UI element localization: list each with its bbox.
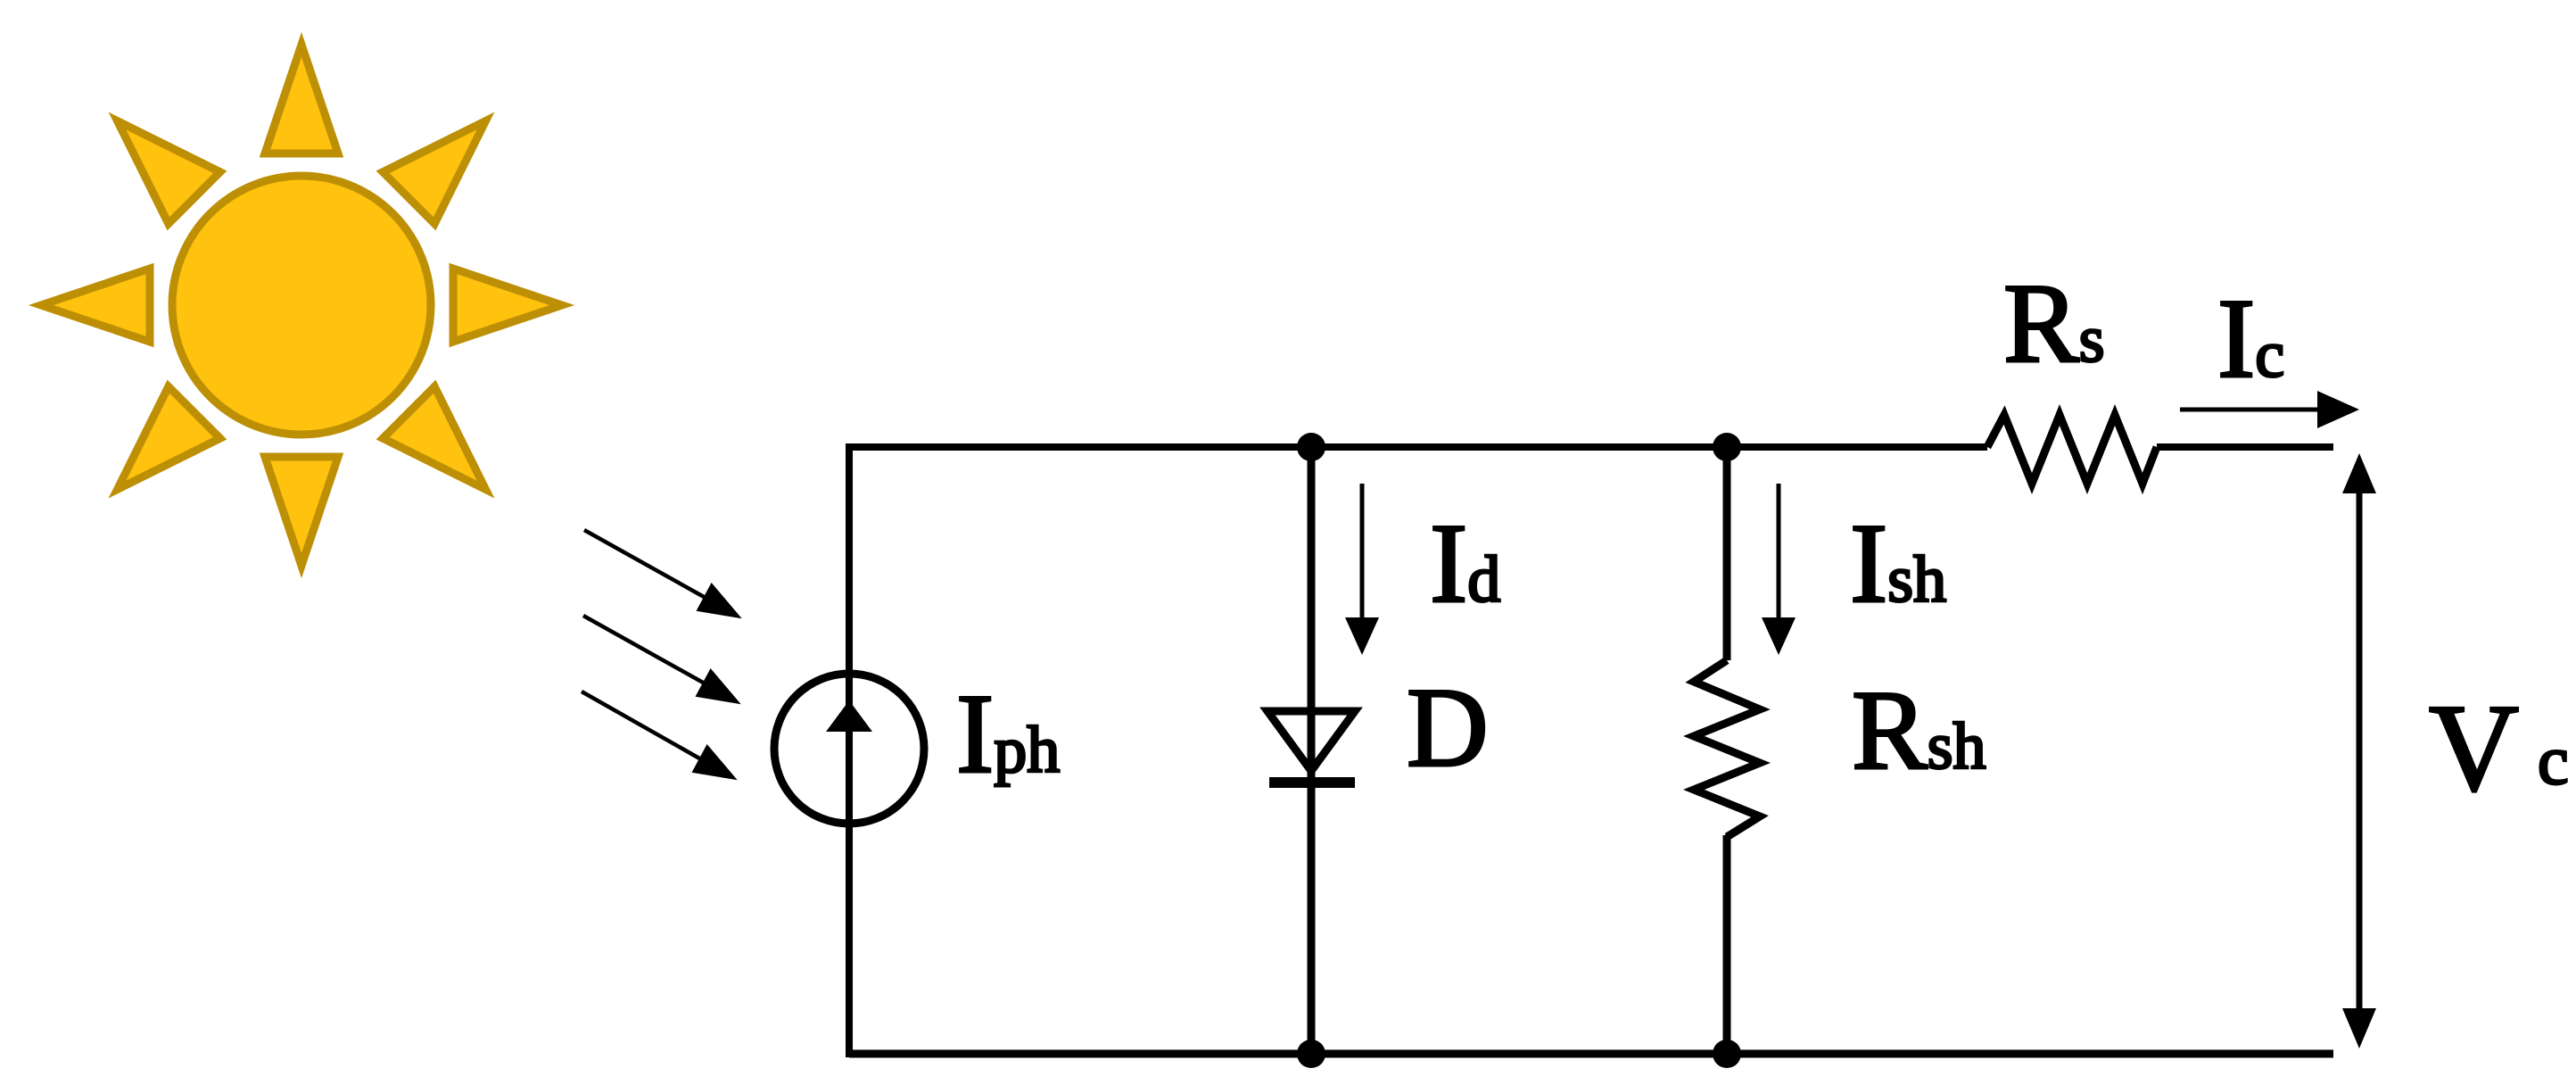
arrow Vc double-headed xyxy=(2342,453,2376,1048)
wire: shunt branch lower xyxy=(1723,835,1731,1054)
irradiance arrow 1 xyxy=(584,530,737,616)
wire: diode branch xyxy=(1308,447,1316,1054)
wire: shunt branch upper xyxy=(1723,447,1731,660)
arrow Ish xyxy=(1762,484,1796,655)
diode D triangle xyxy=(1267,711,1355,771)
irradiance arrow 2 xyxy=(583,616,736,701)
current source arrowhead xyxy=(826,700,872,732)
node D2 (bottom shunt junction) xyxy=(1713,1039,1741,1068)
arrow Ic xyxy=(2180,391,2359,428)
node A (top diode junction) xyxy=(1297,433,1325,461)
current source Iph circle xyxy=(774,674,924,824)
arrow Id xyxy=(1345,484,1379,655)
irradiance arrow 3 xyxy=(582,692,732,777)
sun xyxy=(41,45,562,566)
node C (bottom diode junction) xyxy=(1297,1039,1325,1068)
svg-text:D: D xyxy=(1407,666,1489,791)
wire: top right segment after Rs xyxy=(2157,443,2333,451)
resistor Rs zigzag xyxy=(1987,415,2157,484)
resistor Rsh zigzag xyxy=(1694,660,1760,837)
svg-text:V: V xyxy=(2429,679,2519,817)
svg-text:c: c xyxy=(2538,721,2569,799)
wire: left vertical xyxy=(846,443,853,1057)
wire: bottom horizontal xyxy=(849,1050,2333,1058)
diode D cathode bar xyxy=(1269,777,1355,788)
node B (top shunt junction) xyxy=(1713,433,1741,461)
wire: top left segment xyxy=(849,443,1987,451)
